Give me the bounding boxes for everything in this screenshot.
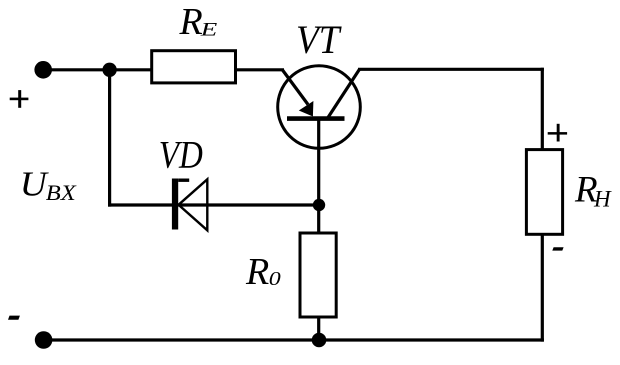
wire: R0 top lead: [317, 205, 320, 234]
resistor RE: [152, 51, 236, 83]
svg-text:0: 0: [269, 268, 281, 290]
wire: top rail left segment (input + to RE): [43, 68, 153, 71]
label minus at RH: [552, 247, 563, 250]
svg-text:BX: BX: [46, 180, 77, 205]
zener diode VD: anode triangle: [179, 179, 208, 230]
transistor VT: collector line: [328, 69, 360, 118]
wire: RE to transistor emitter: [236, 68, 285, 71]
wire: right rail lower segment: [541, 234, 544, 342]
transistor VT: base bar: [287, 116, 345, 121]
svg-text:H: H: [593, 187, 612, 212]
transistor VT: emitter arrowhead: [299, 101, 314, 117]
terminal: negative input terminal: [35, 331, 53, 349]
transistor VT: base lead down: [317, 119, 320, 205]
terminal: positive input terminal: [34, 61, 52, 79]
wire: R0 bottom lead: [317, 317, 320, 340]
wire: collector to right rail: [358, 68, 544, 71]
wire: left branch vertical: [108, 70, 111, 207]
node: junction of base, VD and R0: [313, 199, 325, 211]
svg-text:R: R: [245, 251, 269, 293]
wire: bottom rail: [44, 338, 544, 341]
svg-text:VT: VT: [296, 17, 342, 62]
svg-text:VD: VD: [159, 132, 203, 176]
node: junction of bottom rail and R0: [312, 333, 327, 348]
svg-text:E: E: [199, 20, 217, 41]
transistor VT: emitter line: [283, 70, 309, 105]
resistor RH: [526, 150, 562, 235]
svg-text:R: R: [179, 1, 203, 43]
label minus at input: [8, 316, 20, 320]
zener diode VD: cathode bar: [172, 179, 178, 230]
label plus at input: [10, 90, 29, 108]
zener diode VD: cathode top tab: [178, 179, 189, 182]
transistor VT: circle: [278, 66, 361, 149]
wire: right rail upper segment: [541, 68, 544, 151]
node: junction of top rail and VD branch: [102, 63, 116, 77]
resistor R0: [300, 233, 336, 317]
wire: VD branch horizontal: [108, 203, 319, 206]
label plus at RH: [548, 124, 567, 142]
